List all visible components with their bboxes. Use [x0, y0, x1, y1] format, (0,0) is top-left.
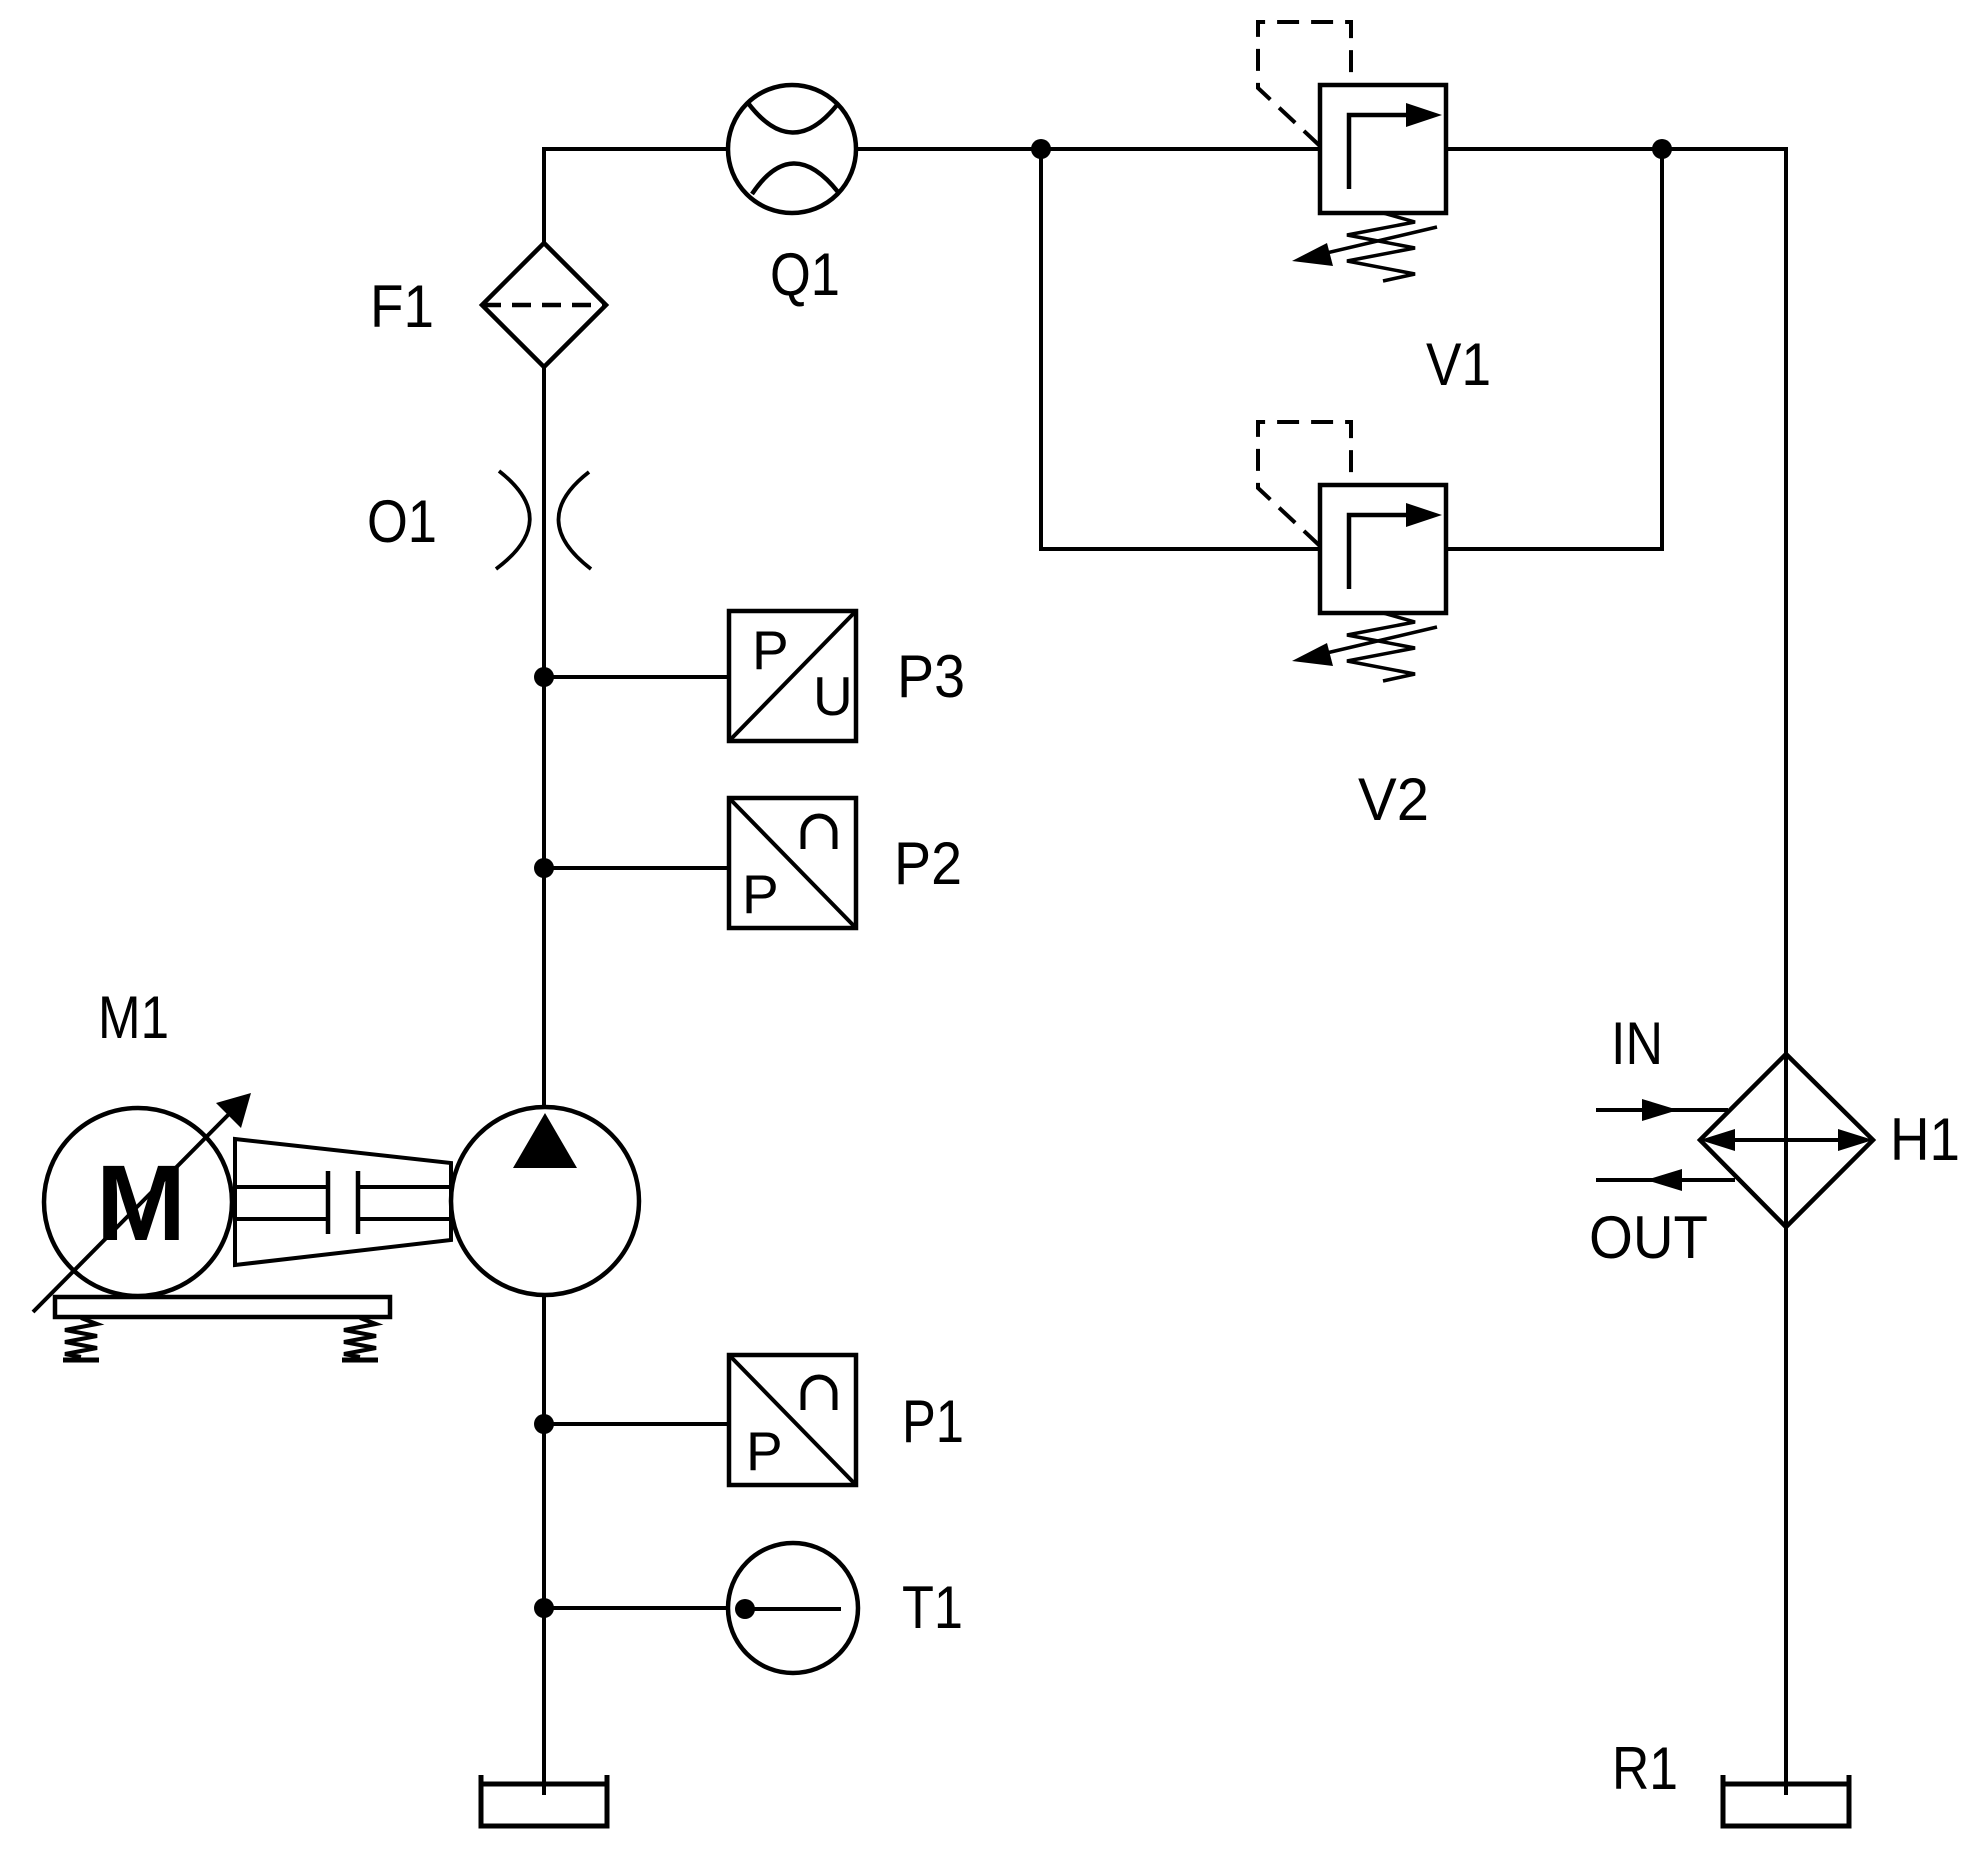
svg-text:R1: R1: [1612, 1735, 1678, 1802]
wire IN arrow: [1596, 1099, 1728, 1121]
svg-text:F1: F1: [370, 273, 434, 340]
svg-text:P1: P1: [902, 1388, 964, 1455]
node junction to T1: [534, 1598, 554, 1618]
svg-text:P3: P3: [897, 643, 965, 710]
wire to T1: [544, 1606, 728, 1610]
node junction B: [1652, 139, 1672, 159]
orifice O1: [496, 471, 591, 569]
motor M1: [33, 1093, 251, 1312]
wire pump bottom to tank: [542, 1295, 546, 1795]
spring mount left: [65, 1318, 97, 1357]
wire left vertical from corner to F1: [544, 149, 728, 243]
wire to P2: [544, 866, 729, 870]
base plate: [55, 1297, 390, 1317]
svg-text:P: P: [752, 619, 789, 681]
svg-text:V2: V2: [1358, 766, 1429, 833]
coupling motor-pump: [235, 1139, 451, 1265]
wire junction A down to V2 left port: [1041, 149, 1320, 549]
temperature sensor T1: [728, 1543, 858, 1673]
wire to P3: [544, 675, 729, 679]
svg-text:U: U: [813, 665, 853, 727]
pressure transducer P3: [729, 611, 856, 741]
relief valve V1: [1258, 22, 1446, 281]
svg-text:H1: H1: [1890, 1106, 1960, 1173]
wire left vertical from F1 to pump: [542, 367, 546, 1107]
pump: [451, 1107, 639, 1295]
svg-text:O1: O1: [367, 488, 437, 555]
svg-text:P: P: [742, 863, 779, 925]
svg-text:V1: V1: [1426, 331, 1491, 398]
wire H1 bottom to reservoir R1: [1784, 1227, 1788, 1795]
svg-text:T1: T1: [902, 1574, 963, 1641]
pressure gauge P2: [729, 798, 856, 928]
reservoir R1: [1723, 1775, 1849, 1826]
wire top horizontal from Q1 to V1 left port: [856, 147, 1320, 151]
filter F1: [482, 243, 606, 367]
heat exchanger H1: [1700, 1054, 1873, 1227]
tank under pump: [481, 1775, 607, 1826]
node junction to P2: [534, 858, 554, 878]
node junction A: [1031, 139, 1051, 159]
wire to P1: [544, 1422, 729, 1426]
relief valve V2: [1258, 422, 1446, 681]
spring mount right: [344, 1318, 376, 1357]
pressure gauge P1: [729, 1355, 856, 1485]
node junction to P3: [534, 667, 554, 687]
svg-text:Q1: Q1: [770, 241, 840, 308]
flow meter Q1: [728, 85, 856, 213]
svg-text:IN: IN: [1611, 1010, 1663, 1077]
wire V2 right port up to node B: [1446, 149, 1662, 549]
svg-text:P2: P2: [894, 830, 962, 897]
wire top horizontal from V1 right port to corner and down: [1446, 149, 1786, 1054]
svg-text:OUT: OUT: [1589, 1204, 1708, 1271]
wire OUT arrow: [1596, 1169, 1735, 1191]
svg-text:M1: M1: [98, 984, 169, 1051]
node junction to P1: [534, 1414, 554, 1434]
svg-text:P: P: [746, 1420, 783, 1482]
